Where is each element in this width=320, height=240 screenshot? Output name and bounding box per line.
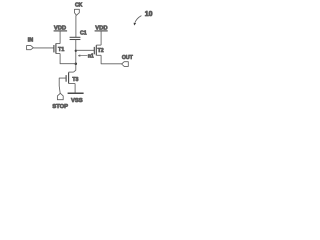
transistor T3 drain stub	[69, 71, 74, 73]
capacitor C1 bottom plate	[70, 39, 81, 41]
wire T2 drain to OUT pin	[101, 55, 122, 64]
transistor T3 source stub	[69, 83, 76, 85]
transistor T1 drain stub	[56, 53, 60, 55]
node junction dot at T1 drain	[75, 62, 78, 64]
node junction dot at T2 gate tap	[75, 50, 77, 52]
svg-text:T1: T1	[58, 47, 64, 53]
transistor T3 channel line	[68, 72, 70, 83]
svg-text:T3: T3	[72, 77, 78, 83]
transistor T1 channel line	[55, 43, 57, 53]
svg-text:IN: IN	[28, 38, 33, 44]
power symbol VDD left bar	[54, 30, 68, 32]
transistor T2 drain stub	[96, 54, 101, 56]
transistor T2 channel line	[95, 45, 97, 55]
svg-text:T2: T2	[98, 48, 104, 54]
svg-text:n1: n1	[88, 54, 94, 60]
transistor T3 gate bar	[65, 75, 67, 82]
terminal pin OUT (pentagon pointing left)	[122, 62, 129, 67]
svg-text:OUT: OUT	[122, 55, 134, 61]
transistor T1 gate bar	[53, 45, 55, 52]
wire T3 source to VSS	[74, 84, 76, 93]
svg-text:C1: C1	[80, 30, 87, 36]
wire IN pin to T1 gate	[33, 47, 54, 49]
wire VDD left to T1 source	[59, 31, 61, 44]
power symbol VSS bar	[68, 92, 84, 94]
node n1 leader arrow	[78, 55, 87, 57]
transistor T2 gate bar	[93, 47, 95, 54]
wire C1 bottom to node n1 column	[74, 40, 76, 73]
terminal pin STOP (pentagon pointing up)	[57, 93, 63, 99]
svg-text:VSS: VSS	[71, 98, 83, 104]
figure reference arrow to circuit	[135, 16, 142, 23]
transistor T1 source stub	[56, 43, 60, 45]
svg-text:CK: CK	[75, 3, 83, 9]
terminal pin IN (pentagon pointing right)	[27, 46, 34, 50]
svg-text:STOP: STOP	[52, 104, 68, 110]
wire CK pin to C1 top plate	[75, 15, 77, 37]
power symbol VDD right bar	[95, 30, 108, 32]
wire node to T2 gate	[76, 49, 95, 51]
wire T1 drain down and right to node	[60, 54, 76, 64]
wire T3 gate left and down to STOP pin	[59, 78, 66, 93]
terminal pin CK (pentagon pointing down)	[75, 9, 80, 15]
svg-text:10: 10	[145, 11, 153, 18]
transistor T2 source stub	[96, 44, 101, 46]
capacitor C1 top plate	[70, 36, 81, 38]
wire VDD right to T2 source	[100, 31, 102, 45]
